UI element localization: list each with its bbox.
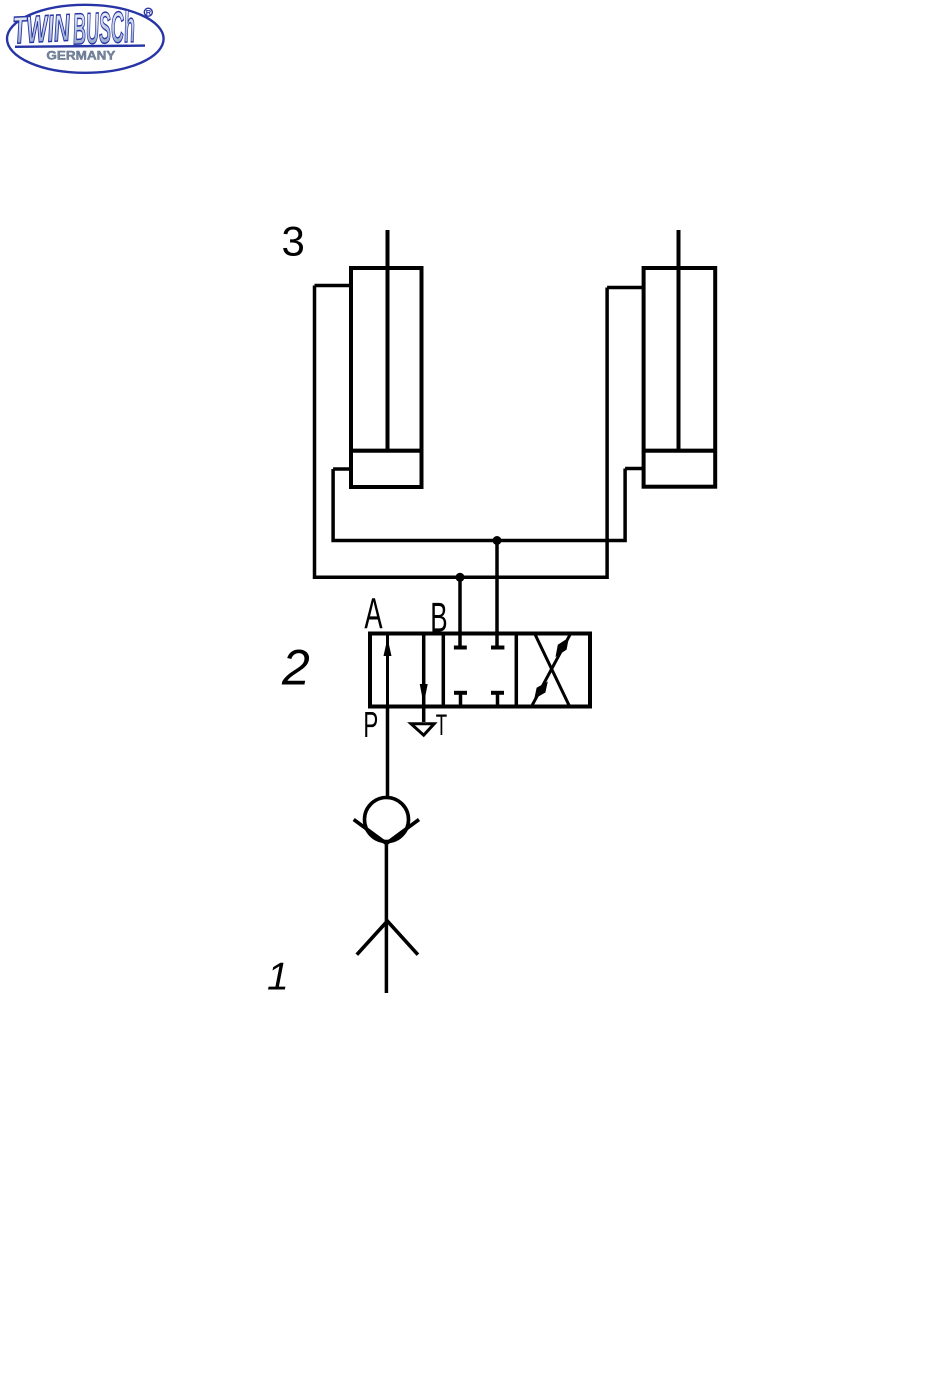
valve P-to-A flow line [386,635,389,707]
wire A branch down to valve [458,577,462,647]
cylinder right top port stub [607,286,645,290]
wire B branch down to valve [495,541,499,648]
cylinder left bottom port stub [333,467,353,471]
valve U2 body [370,634,590,707]
logo Twin Busch [7,3,164,73]
wire B: left cyl bottom port to right cyl bottom port [333,469,625,541]
wire P from valve to pump [386,707,390,799]
wire A: left cyl top port to right cyl top port [315,286,608,578]
svg-text:R: R [146,8,152,17]
svg-text:1: 1 [267,956,289,999]
cylinder left piston [351,449,422,453]
cylinder right piston [644,449,716,453]
pump suction arrowhead [357,921,418,955]
valve cross position slash line [532,634,570,705]
wire from check valve down [385,843,389,993]
svg-text:T: T [436,709,447,743]
cylinder left top port stub [315,284,354,288]
valve divider right [515,634,519,707]
logo registered mark [144,8,152,16]
node B junction dot [493,536,502,545]
cylinder left body [351,268,422,487]
valve B-to-T arrowhead down [420,684,428,705]
valve cross position backslash line [535,635,570,707]
node A junction dot [456,573,465,582]
cylinder right piston rod [677,230,681,451]
svg-text:GERMANY: GERMANY [46,49,115,63]
valve P-to-A arrowhead up [384,638,392,656]
cylinder right bottom port stub [625,467,645,471]
svg-text:A: A [364,589,383,638]
svg-text:3: 3 [282,218,305,265]
svg-text:P: P [363,706,378,746]
valve B-to-T flow line [422,634,426,723]
valve blocked port stub bottom-right [496,693,500,707]
check valve circle [365,798,409,842]
tank drain triangle below T [411,724,434,735]
logo underline [15,46,145,47]
valve blocked port stub bottom-left [459,693,463,707]
valve blocked port cap top-left [454,646,467,650]
valve blocked port cap bottom-right [491,691,504,695]
svg-text:2: 2 [281,640,310,696]
valve cross arrowhead lower-left [534,682,548,699]
valve cross arrowhead upper-right [556,638,569,658]
valve blocked port cap bottom-left [454,691,467,695]
valve blocked port cap top-right [491,646,504,650]
check valve seat [354,820,419,844]
cylinder left piston rod [386,230,390,451]
cylinder right body [644,268,716,487]
logo oval [7,5,164,73]
valve divider left [442,634,446,707]
